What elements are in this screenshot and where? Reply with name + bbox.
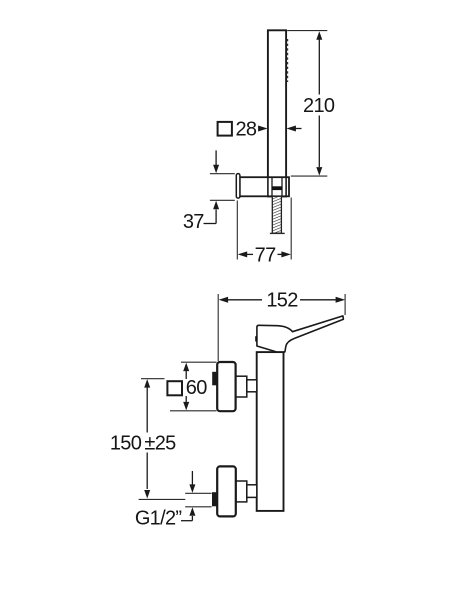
svg-text:G1/2”: G1/2” bbox=[135, 507, 182, 529]
svg-text:210: 210 bbox=[303, 95, 335, 117]
svg-text:37: 37 bbox=[183, 211, 204, 233]
svg-text:77: 77 bbox=[255, 244, 276, 266]
svg-text:60: 60 bbox=[186, 377, 207, 399]
svg-text:150 ±25: 150 ±25 bbox=[110, 432, 176, 454]
svg-text:152: 152 bbox=[266, 290, 298, 312]
svg-text:28: 28 bbox=[235, 119, 256, 141]
